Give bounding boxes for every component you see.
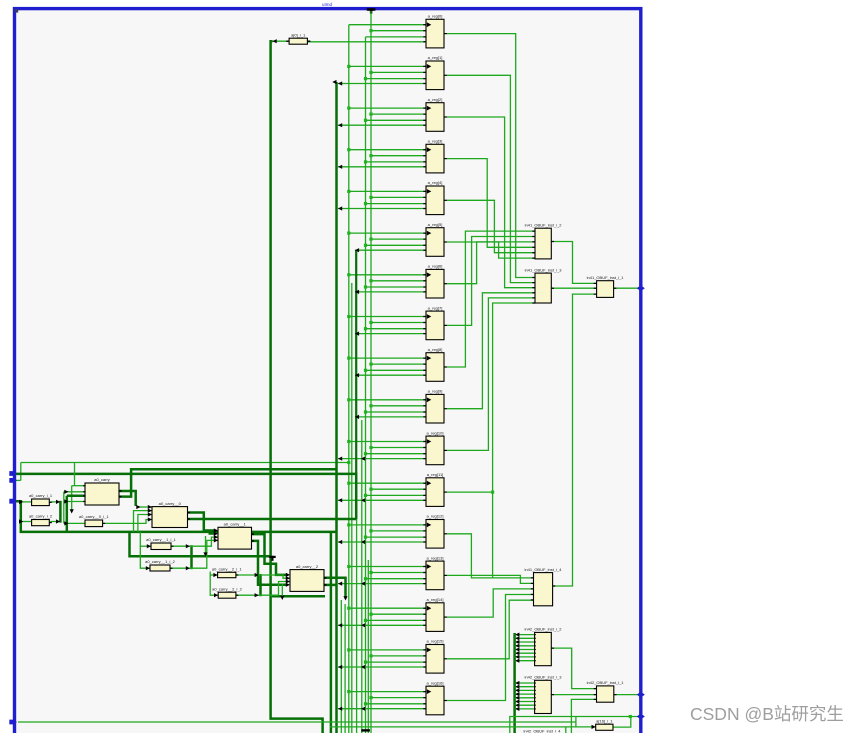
svg-text:in42_OBUF_inst_i_4: in42_OBUF_inst_i_4 — [524, 728, 562, 733]
svg-text:in41_OBUF_inst_i_2: in41_OBUF_inst_i_2 — [525, 222, 563, 227]
svg-text:a0_carry__1_i_1: a0_carry__1_i_1 — [146, 537, 177, 542]
svg-text:a_reg[16]: a_reg[16] — [427, 680, 444, 685]
svg-text:a_reg[8]: a_reg[8] — [428, 347, 443, 352]
svg-text:a0_carry__0: a0_carry__0 — [159, 501, 182, 506]
svg-text:a0_carry__2_i_1: a0_carry__2_i_1 — [212, 567, 243, 572]
svg-text:in41_OBUF_inst_i_4: in41_OBUF_inst_i_4 — [525, 567, 563, 572]
svg-text:a0_carry__0_i_1: a0_carry__0_i_1 — [79, 514, 110, 519]
svg-text:in41_OBUF_inst_i_3: in41_OBUF_inst_i_3 — [525, 267, 563, 272]
svg-text:a[16]_i_1: a[16]_i_1 — [596, 718, 613, 723]
svg-text:a_reg[1]: a_reg[1] — [428, 55, 443, 60]
svg-text:in41_OBUF_inst_i_1: in41_OBUF_inst_i_1 — [587, 275, 625, 280]
svg-text:a_reg[11]: a_reg[11] — [427, 472, 444, 477]
svg-text:in42_OBUF_inst_i_3: in42_OBUF_inst_i_3 — [525, 675, 563, 680]
svg-text:a_reg[2]: a_reg[2] — [428, 97, 443, 102]
svg-text:a0_carry_i_1: a0_carry_i_1 — [29, 493, 53, 498]
svg-text:a0_carry_i_2: a0_carry_i_2 — [29, 514, 53, 519]
svg-text:a0_carry__1: a0_carry__1 — [224, 522, 247, 527]
svg-text:a0_carry__2_i_2: a0_carry__2_i_2 — [212, 586, 243, 591]
svg-text:a[0]_i_1: a[0]_i_1 — [291, 32, 306, 37]
svg-text:a_reg[12]: a_reg[12] — [427, 514, 444, 519]
svg-text:a_reg[6]: a_reg[6] — [428, 264, 443, 269]
svg-text:CSDN @B站研究生: CSDN @B站研究生 — [690, 704, 844, 724]
svg-text:a_reg[4]: a_reg[4] — [428, 180, 443, 185]
svg-text:a_reg[10]: a_reg[10] — [427, 430, 444, 435]
svg-text:a_reg[9]: a_reg[9] — [428, 389, 443, 394]
svg-text:uImd: uImd — [322, 2, 333, 7]
svg-text:a_reg[7]: a_reg[7] — [428, 305, 443, 310]
svg-text:a_reg[15]: a_reg[15] — [427, 639, 444, 644]
svg-text:a0_carry__1_i_2: a0_carry__1_i_2 — [145, 559, 176, 564]
svg-text:in42_OBUF_inst_i_2: in42_OBUF_inst_i_2 — [525, 627, 563, 632]
svg-text:in42_OBUF_inst_i_1: in42_OBUF_inst_i_1 — [587, 680, 625, 685]
svg-text:a_reg[5]: a_reg[5] — [428, 222, 443, 227]
svg-text:a_reg[3]: a_reg[3] — [428, 139, 443, 144]
svg-text:a_reg[13]: a_reg[13] — [427, 555, 444, 560]
svg-text:a_reg[14]: a_reg[14] — [427, 597, 444, 602]
svg-text:a0_carry: a0_carry — [94, 477, 110, 482]
svg-text:a_reg[0]: a_reg[0] — [428, 14, 443, 19]
svg-text:a0_carry__2: a0_carry__2 — [296, 564, 319, 569]
